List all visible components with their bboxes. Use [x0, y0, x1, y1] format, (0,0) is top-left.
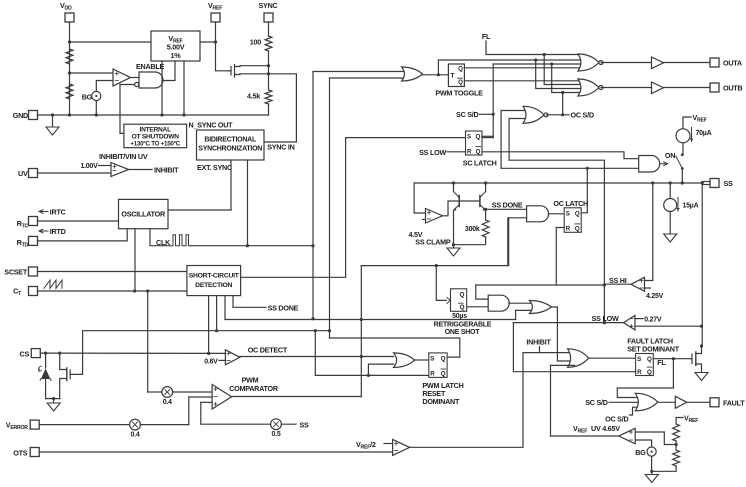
svg-text:EXT. SYNC: EXT. SYNC — [197, 163, 232, 172]
svg-text:OTS: OTS — [13, 449, 27, 458]
svg-text:Q: Q — [460, 304, 465, 311]
svg-text:+130°C TO +150°C: +130°C TO +150°C — [130, 141, 180, 148]
svg-text:100: 100 — [250, 38, 261, 47]
svg-text:BG: BG — [82, 93, 93, 102]
svg-text:PWM TOGGLE: PWM TOGGLE — [435, 89, 483, 98]
svg-text:OSCILLATOR: OSCILLATOR — [121, 210, 166, 219]
svg-text:INHIBIT: INHIBIT — [154, 166, 179, 175]
svg-text:OUTB: OUTB — [723, 84, 742, 93]
svg-text:0.27V: 0.27V — [644, 316, 662, 323]
svg-text:BG: BG — [635, 448, 646, 457]
svg-text:Q: Q — [647, 356, 652, 363]
svg-text:4.5k: 4.5k — [247, 92, 260, 101]
svg-text:R: R — [430, 371, 435, 378]
svg-text:N_SYNC OUT: N_SYNC OUT — [189, 121, 234, 130]
svg-text:0.6V: 0.6V — [204, 359, 218, 366]
svg-text:OT SHUTDOWN: OT SHUTDOWN — [132, 134, 180, 141]
svg-text:RETRIGGERABLE: RETRIGGERABLE — [434, 322, 492, 329]
svg-text:Q: Q — [441, 356, 446, 363]
svg-text:SC S/D: SC S/D — [456, 110, 479, 119]
svg-text:R: R — [467, 148, 472, 155]
svg-text:1.00V: 1.00V — [80, 163, 98, 170]
svg-text:Q: Q — [460, 292, 465, 299]
svg-text:Q: Q — [476, 134, 481, 141]
svg-text:COMPARATOR: COMPARATOR — [229, 384, 279, 393]
svg-text:0.4: 0.4 — [131, 431, 140, 438]
svg-text:0.5: 0.5 — [272, 431, 281, 438]
svg-text:FL: FL — [482, 32, 491, 41]
svg-text:GND: GND — [13, 111, 28, 120]
svg-text:DOMINANT: DOMINANT — [422, 397, 460, 406]
svg-text:Q: Q — [441, 371, 446, 378]
svg-text:OUTA: OUTA — [723, 59, 742, 68]
svg-text:INHIBIT/VIN UV: INHIBIT/VIN UV — [99, 152, 148, 161]
svg-text:T: T — [451, 73, 455, 80]
svg-text:R: R — [566, 226, 571, 233]
svg-text:300k: 300k — [465, 226, 480, 233]
svg-text:OC DETECT: OC DETECT — [248, 346, 288, 355]
svg-text:OC LATCH: OC LATCH — [553, 199, 588, 208]
svg-text:SYNC: SYNC — [259, 1, 278, 10]
svg-text:SC LATCH: SC LATCH — [463, 159, 497, 168]
svg-text:SS: SS — [724, 179, 734, 188]
svg-text:SYNC IN: SYNC IN — [267, 142, 294, 151]
svg-text:SC S/D: SC S/D — [585, 398, 608, 407]
svg-text:FAULT: FAULT — [723, 399, 745, 408]
svg-text:ON: ON — [665, 151, 675, 160]
svg-text:R: R — [637, 369, 642, 376]
svg-text:UV 4.65V: UV 4.65V — [591, 424, 620, 433]
svg-text:SS CLAMP: SS CLAMP — [415, 238, 451, 247]
svg-text:CLK: CLK — [156, 238, 171, 247]
svg-text:S: S — [566, 211, 570, 218]
svg-text:50µs: 50µs — [452, 313, 467, 320]
svg-text:BIDIRECTIONAL: BIDIRECTIONAL — [204, 137, 257, 144]
svg-text:Q: Q — [575, 226, 580, 233]
svg-text:OC S/D: OC S/D — [605, 414, 628, 423]
svg-text:SS: SS — [300, 420, 310, 429]
svg-text:Q: Q — [647, 369, 652, 376]
svg-text:Q: Q — [458, 66, 463, 73]
svg-text:UV: UV — [18, 169, 28, 178]
svg-text:S: S — [430, 356, 434, 363]
svg-text:S: S — [637, 356, 641, 363]
svg-text:OC S/D: OC S/D — [571, 111, 594, 120]
svg-text:ENABLE: ENABLE — [136, 62, 165, 71]
svg-text:SS DONE: SS DONE — [492, 201, 523, 210]
svg-text:IRTC: IRTC — [50, 208, 66, 217]
svg-text:Q: Q — [458, 79, 463, 86]
svg-text:DETECTION: DETECTION — [195, 282, 232, 289]
svg-text:S: S — [467, 134, 471, 141]
svg-text:SHORT-CIRCUIT: SHORT-CIRCUIT — [189, 273, 240, 280]
svg-text:FL: FL — [657, 358, 666, 367]
svg-text:SET DOMINANT: SET DOMINANT — [627, 345, 680, 354]
svg-text:SYNCHRONIZATION: SYNCHRONIZATION — [198, 146, 262, 153]
svg-text:SS LOW: SS LOW — [419, 148, 446, 157]
svg-text:70µA: 70µA — [696, 130, 712, 137]
svg-text:SS DONE: SS DONE — [268, 304, 299, 313]
svg-text:0.4: 0.4 — [163, 399, 172, 406]
svg-text:CS: CS — [20, 350, 30, 359]
svg-text:INHIBIT: INHIBIT — [526, 338, 551, 347]
svg-text:SCSET: SCSET — [4, 268, 28, 277]
svg-text:ONE SHOT: ONE SHOT — [445, 329, 481, 336]
svg-text:Q: Q — [476, 148, 481, 155]
svg-text:4.25V: 4.25V — [646, 293, 664, 300]
svg-text:15µA: 15µA — [683, 203, 699, 210]
svg-text:IRTD: IRTD — [50, 227, 66, 236]
svg-text:Q: Q — [575, 211, 580, 218]
svg-text:1%: 1% — [171, 51, 182, 60]
svg-text:INTERNAL: INTERNAL — [140, 127, 172, 134]
